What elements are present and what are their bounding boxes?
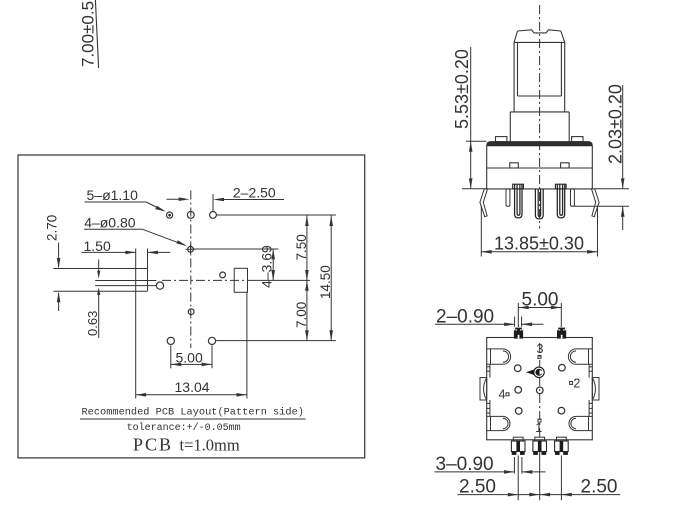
wire: extension line from hole B bbox=[193, 248, 278, 250]
dimension 7.00±0.5 leader line (top left) bbox=[95, 0, 98, 68]
corner clip slot bottom-right bbox=[569, 416, 592, 430]
corner clip slot top-right bbox=[568, 349, 592, 364]
svg-text:1: 1 bbox=[535, 421, 542, 435]
hole pad C (mid small circle) bbox=[220, 272, 226, 278]
side bump left bbox=[480, 378, 487, 400]
svg-text:13.04: 13.04 bbox=[175, 379, 210, 395]
shaft end marker bbox=[526, 369, 535, 375]
terminal pin T3 (loop) bbox=[555, 184, 566, 189]
terminal pin T2 (loop, middle) bbox=[535, 189, 543, 219]
edge inner lines with rungs (left) bbox=[489, 364, 491, 377]
PCB layout box frame bbox=[18, 155, 365, 458]
svg-text:4–3.69: 4–3.69 bbox=[259, 245, 275, 288]
wire: extension line top row bbox=[216, 214, 336, 216]
body sides bbox=[486, 146, 488, 189]
support pin left bbox=[506, 189, 510, 206]
side bump right bbox=[592, 378, 599, 400]
hole pad A2 bbox=[187, 212, 194, 219]
body small tabs bbox=[510, 163, 519, 168]
pad slot (two parallel lines with round end) bbox=[95, 280, 156, 282]
support pin right bbox=[571, 189, 575, 206]
svg-text:5.53±0.20: 5.53±0.20 bbox=[452, 49, 472, 129]
svg-text:0.63: 0.63 bbox=[85, 311, 100, 336]
svg-text:Recommended PCB Layout(Pattern: Recommended PCB Layout(Pattern side) bbox=[82, 407, 304, 419]
svg-text:PCB t=1.0mm: PCB t=1.0mm bbox=[133, 435, 240, 455]
hole pad D (lower small circle) bbox=[188, 309, 194, 315]
svg-text:tolerance:+/-0.05mm: tolerance:+/-0.05mm bbox=[127, 422, 241, 434]
bottom pin cross-section 1 bbox=[511, 437, 525, 455]
corner clip slot bottom-left bbox=[487, 416, 510, 430]
svg-text:4–ø0.80: 4–ø0.80 bbox=[84, 215, 136, 231]
svg-text:1.50: 1.50 bbox=[84, 238, 111, 254]
body top plate bbox=[487, 142, 593, 146]
body mid line bbox=[487, 167, 593, 169]
bottom view body outline bbox=[487, 338, 593, 440]
body top tabs bbox=[496, 137, 507, 142]
svg-text:13.85±0.30: 13.85±0.30 bbox=[494, 234, 584, 254]
body bottom line bbox=[487, 188, 593, 190]
hole pad A1 (1.10 dia with center dot) bbox=[167, 212, 173, 218]
wire: horizontal centerline of PCB pattern bbox=[162, 279, 247, 281]
svg-text:7.00±0.5: 7.00±0.5 bbox=[79, 1, 98, 67]
hole circles pattern bbox=[514, 365, 521, 372]
svg-text:2.70: 2.70 bbox=[45, 215, 60, 241]
pad P1 outline (left rectangular pad) bbox=[53, 268, 147, 270]
bottom pin cross-section 3 bbox=[555, 437, 569, 455]
top pin cross-section left bbox=[514, 328, 523, 339]
svg-text:4: 4 bbox=[499, 388, 506, 402]
wire: vertical centerline bottom view bbox=[539, 343, 541, 437]
hole pad E1 (bottom left) bbox=[167, 337, 174, 344]
pad P2 (right rectangular pad) bbox=[234, 268, 247, 292]
svg-text:3: 3 bbox=[537, 342, 544, 356]
hole pad B (0.80 dia with cross) bbox=[188, 246, 194, 252]
shaft inner flat lines bbox=[517, 42, 519, 96]
wire: vertical centerline front view bbox=[539, 5, 541, 229]
svg-text:5–ø1.10: 5–ø1.10 bbox=[87, 187, 139, 203]
svg-text:2–2.50: 2–2.50 bbox=[233, 185, 276, 201]
corner clip slot top-left bbox=[487, 349, 511, 364]
mounting leg right bbox=[592, 189, 600, 217]
edge inner lines with rungs (right) bbox=[588, 364, 590, 377]
bushing bbox=[510, 111, 569, 113]
bottom pin cross-section 2 bbox=[533, 437, 547, 455]
shaft outline with top slot bbox=[518, 30, 561, 33]
svg-text:2: 2 bbox=[573, 376, 580, 390]
hole pad E2 (bottom right) bbox=[208, 337, 215, 344]
terminal pin T1 (loop) bbox=[513, 184, 524, 189]
wire: solid center row line right of pad P2 bbox=[248, 279, 311, 281]
mounting leg left bbox=[480, 189, 488, 217]
wire: vertical centerline of PCB pattern bbox=[190, 191, 192, 349]
hole pad A3 bbox=[210, 212, 217, 219]
top pin cross-section right bbox=[557, 328, 566, 339]
wire: extension line bottom row bbox=[216, 340, 336, 342]
